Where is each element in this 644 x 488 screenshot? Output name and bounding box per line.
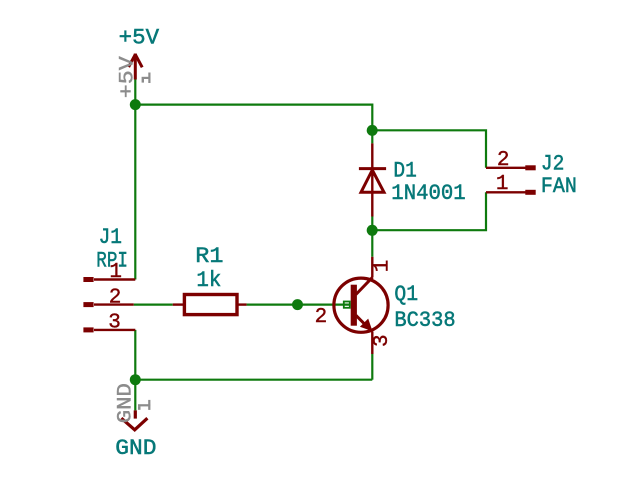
svg-text:GND: GND [114,383,137,423]
resistor R1 right lead [237,303,247,305]
transistor Q1 emitter arrowhead [360,319,373,332]
wire GND rail down to GND symbol [134,380,136,411]
svg-text:3: 3 [371,334,394,347]
transistor Q1 base bar [351,285,357,326]
svg-text:1k: 1k [196,268,221,293]
power symbol +5V arrow [129,54,143,80]
wire Q1 emitter to GND rail [371,354,373,380]
junction dot at D1 top [367,125,378,136]
wire from D1 top junction to J2 pin 2 [372,130,486,168]
connector J2 pin 2 [486,167,526,169]
wire J1 pin 3 down to GND rail [135,330,372,380]
svg-text:+5V: +5V [119,26,160,51]
svg-text:Q1: Q1 [394,282,418,307]
svg-text:1N4001: 1N4001 [391,181,465,206]
svg-text:BC338: BC338 [394,308,455,333]
transistor Q1 circle [334,278,388,332]
svg-text:2: 2 [315,306,328,329]
resistor R1 body [184,295,237,315]
svg-text:J1: J1 [99,225,122,250]
junction dot at GND rail [130,374,141,385]
connector J2 pin 1 [486,191,526,193]
transistor Q1 collector diagonal [356,277,373,294]
svg-text:J2: J2 [541,151,565,176]
junction dot at D1 bottom [367,225,378,236]
svg-text:FAN: FAN [541,174,577,199]
gray pin number 1 at GND (rotated) [138,400,150,410]
resistor R1 left lead [173,303,185,305]
svg-text:2: 2 [497,149,510,172]
transistor Q1 emitter pin [371,332,373,355]
junction dot on base wire [292,299,303,310]
svg-text:3: 3 [108,312,121,335]
diode D1 triangle [361,170,384,192]
gray pin number 1 at +5V (rotated) [142,73,151,84]
wire top rail from +5V junction to middle rail [135,105,372,144]
svg-text:2: 2 [109,286,122,309]
transistor Q1 emitter diagonal [356,315,371,330]
wire base net from J1 pin 2 to R1 [134,304,173,306]
svg-text:RPI: RPI [96,249,128,274]
wire from R1 to Q1 base [247,304,351,306]
green pin-connect square at Q1 base [344,302,350,308]
svg-text:1: 1 [496,173,509,196]
transistor Q1 collector pin [371,257,373,278]
connector J1 pin 1 [94,278,135,280]
diode D1 cathode bar [359,167,386,170]
svg-text:D1: D1 [393,158,416,183]
junction dot at +5V rail [130,99,141,110]
wire diode bottom to Q1 collector [371,217,373,257]
diode D1 vertical lead [371,143,373,216]
connector J1 pin 3 [94,329,135,331]
svg-text:1: 1 [371,260,394,273]
wire from J2 pin 1 to D1 bottom junction [372,192,486,230]
ground symbol chevron [121,410,147,429]
wire left rail from +5V arrow down to J1 pin 1 [134,80,136,280]
svg-text:+5V: +5V [116,56,139,98]
svg-text:R1: R1 [195,244,223,269]
connector J1 pin 2 [94,303,134,305]
svg-text:GND: GND [115,436,156,461]
